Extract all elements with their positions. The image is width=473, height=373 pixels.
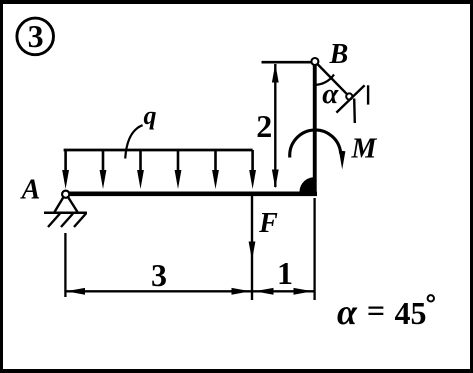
svg-text:M: M — [351, 133, 378, 164]
dim arrow right of 1 — [294, 288, 313, 295]
border frame right — [470, 0, 473, 373]
svg-text:45: 45 — [395, 295, 427, 331]
pin support A triangle left leg — [55, 197, 64, 212]
dim arrow right of 3 — [232, 288, 251, 295]
pin B circle — [311, 58, 318, 65]
inclined link rod at B — [317, 64, 347, 94]
load arrow 1 — [62, 150, 69, 189]
extension line right of corner — [313, 198, 315, 300]
bottom dimension line — [65, 290, 314, 292]
pin support A circle — [62, 191, 69, 198]
moment M arc — [290, 130, 341, 158]
border frame top — [0, 0, 473, 4]
moment arrowhead — [339, 151, 346, 170]
top reference line at B level — [262, 61, 314, 64]
load arrow 2 — [100, 150, 107, 189]
svg-text:α: α — [322, 78, 339, 110]
svg-text:1: 1 — [277, 255, 293, 291]
pin support A base line — [44, 212, 87, 215]
distributed load line — [64, 149, 253, 152]
svg-text:A: A — [20, 174, 41, 205]
border frame left — [0, 0, 3, 373]
corner fillet — [300, 177, 317, 191]
beam AB horizontal member — [62, 192, 317, 197]
svg-text:=: = — [367, 293, 385, 329]
wall hatch 2 — [367, 85, 369, 104]
pin support A triangle right leg — [68, 197, 78, 212]
svg-text:F: F — [258, 208, 278, 239]
extension line below A — [64, 233, 66, 297]
q leader line — [125, 125, 142, 158]
svg-text:2: 2 — [256, 108, 272, 144]
dim arrow left of 1 — [255, 288, 274, 295]
dimension 2 line with arrows — [272, 64, 279, 189]
task number circle 3 — [17, 18, 54, 55]
border frame bottom — [0, 369, 473, 373]
support wall line — [336, 85, 364, 112]
svg-text:3: 3 — [151, 257, 167, 293]
link end pin circle — [346, 93, 352, 99]
svg-text:α: α — [337, 292, 358, 332]
force F line — [251, 196, 253, 300]
load arrow 5 — [212, 150, 219, 189]
pin support A hatch 1 — [48, 214, 60, 228]
pin support A hatch 2 — [61, 214, 73, 228]
svg-text:B: B — [329, 39, 349, 70]
angle alpha arc at B — [315, 75, 334, 85]
svg-text:3: 3 — [28, 18, 44, 54]
dim arrow left of 3 — [66, 288, 85, 295]
load arrow 4 — [175, 150, 182, 189]
vertical column member — [313, 60, 317, 194]
force F arrowhead — [249, 242, 256, 261]
wall hatch 1 — [353, 99, 356, 124]
load arrow 6 — [249, 150, 256, 189]
pin support A hatch 3 — [74, 214, 86, 228]
equation alpha = 45 deg — [337, 292, 434, 332]
svg-text:q: q — [144, 101, 157, 130]
load arrow 3 — [137, 150, 144, 189]
